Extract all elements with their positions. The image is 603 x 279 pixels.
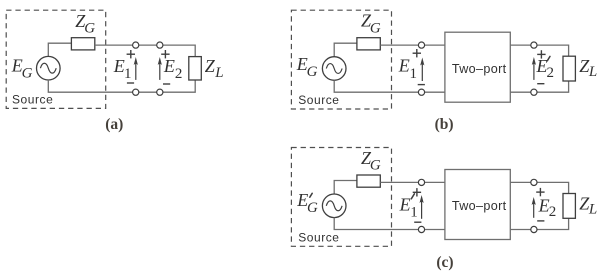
svg-text:E: E	[398, 55, 410, 75]
wire bottom left (b)	[334, 80, 445, 92]
wire two-port to load top (c)	[510, 182, 568, 193]
label E_2 (a)	[163, 56, 183, 82]
svg-text:2: 2	[547, 65, 555, 81]
svg-text:Source: Source	[298, 231, 339, 245]
svg-text:G: G	[307, 64, 318, 80]
generator E_G (a)	[37, 56, 61, 80]
label Z_G (b)	[361, 11, 381, 37]
svg-text:G: G	[370, 158, 381, 174]
wire generator top to Z_G (c)	[334, 181, 357, 195]
svg-text:Z: Z	[205, 56, 216, 76]
svg-text:G: G	[84, 20, 95, 36]
label E_G (a)	[11, 55, 33, 81]
terminal 1+ (a)	[133, 42, 139, 48]
svg-text:1: 1	[124, 66, 132, 82]
minus E_2 (c)	[537, 220, 544, 222]
arrow E_1 prime (c)	[420, 195, 424, 219]
impedance Z_G (c)	[357, 175, 380, 187]
svg-text:E: E	[399, 194, 411, 214]
load Z_L (b)	[563, 56, 575, 81]
label Z_L (b)	[579, 56, 597, 80]
svg-text:L: L	[214, 65, 223, 81]
svg-text:E: E	[538, 195, 550, 215]
wire bottom left (c)	[334, 218, 445, 230]
svg-text:E: E	[163, 56, 175, 76]
minus E_1 (a)	[127, 82, 134, 84]
terminal 2- (b)	[531, 89, 537, 95]
wire two-port to load bottom (c)	[510, 218, 568, 229]
label Z_G (a)	[75, 11, 95, 36]
plus E_2 (c)	[536, 188, 544, 196]
label Z_L (a)	[205, 56, 224, 81]
source dashed box (a)	[6, 10, 106, 108]
label E_G prime (c)	[296, 190, 318, 216]
svg-text:2: 2	[175, 66, 183, 82]
svg-text:Source: Source	[298, 93, 339, 107]
svg-text:G: G	[307, 200, 318, 216]
load Z_L (a)	[189, 57, 202, 80]
wire Z_G to two-port (b)	[380, 44, 445, 46]
plus E_2 prime (b)	[537, 50, 545, 58]
svg-text:G: G	[22, 65, 33, 81]
label E_1 (a)	[113, 56, 132, 82]
wire two-port to load top (b)	[510, 45, 568, 56]
arrow E_1 (b)	[420, 58, 424, 82]
terminal 1- (b)	[418, 89, 424, 95]
source dashed box (c)	[291, 148, 391, 247]
terminal 2- (a)	[157, 89, 163, 95]
svg-text:1: 1	[410, 66, 418, 82]
terminal 2+ (a)	[157, 42, 163, 48]
svg-text:Two–port: Two–port	[452, 62, 507, 76]
svg-text:(a): (a)	[105, 116, 123, 133]
svg-text:L: L	[588, 64, 597, 80]
arrow E_2 (c)	[532, 197, 536, 218]
label E_G (b)	[296, 54, 318, 80]
label E_2 prime (b)	[536, 56, 555, 81]
label E_1 (b)	[398, 55, 417, 82]
terminal 1+ (c)	[418, 179, 424, 185]
wire Z_G to load top (a)	[95, 45, 195, 57]
label E_2 (c)	[538, 195, 557, 220]
wire generator top to Z_G (b)	[334, 43, 357, 57]
plus E_1 prime (c)	[413, 188, 421, 196]
arrow E_2 prime (b)	[532, 57, 536, 80]
minus E_1 (b)	[418, 84, 425, 86]
minus E_2 prime (b)	[537, 83, 544, 85]
label E_1 prime (c)	[399, 194, 418, 221]
svg-text:2: 2	[549, 204, 557, 220]
terminal 2+ (b)	[531, 42, 537, 48]
wire bottom (a)	[48, 80, 195, 92]
wire Z_G to two-port (c)	[380, 181, 445, 183]
svg-text:1: 1	[410, 205, 418, 221]
two-port network box (c)	[445, 170, 510, 240]
svg-text:G: G	[370, 20, 381, 36]
terminal 1- (c)	[418, 226, 424, 232]
terminal 2+ (c)	[531, 179, 537, 185]
svg-text:Source: Source	[12, 92, 53, 106]
arrow E_2 (a)	[158, 57, 162, 80]
plus E_2 (a)	[161, 50, 169, 58]
generator E_G prime (c)	[322, 194, 346, 218]
impedance Z_G (b)	[357, 38, 380, 50]
generator E_G (b)	[322, 57, 346, 81]
label Z_L (c)	[579, 193, 597, 217]
svg-text:(c): (c)	[436, 254, 453, 271]
svg-text:Two–port: Two–port	[452, 199, 507, 213]
load Z_L (c)	[563, 194, 575, 219]
source dashed box (b)	[291, 10, 391, 109]
svg-text:E: E	[113, 56, 125, 76]
plus E_1 (a)	[127, 50, 135, 58]
label Z_G (c)	[361, 148, 381, 174]
arrow E_1 (a)	[134, 57, 138, 80]
svg-text:(b): (b)	[435, 116, 454, 133]
wire two-port to load bottom (b)	[510, 81, 568, 92]
svg-text:L: L	[588, 202, 597, 218]
terminal 2- (c)	[531, 226, 537, 232]
plus E_1 (b)	[413, 49, 421, 57]
minus E_1 prime (c)	[414, 221, 421, 223]
terminal 1+ (b)	[418, 42, 424, 48]
two-port network box (b)	[445, 32, 510, 102]
terminal 1- (a)	[133, 89, 139, 95]
minus E_2 (a)	[163, 83, 170, 85]
impedance Z_G (a)	[71, 38, 94, 50]
wire generator top to Z_G (a)	[48, 43, 71, 56]
